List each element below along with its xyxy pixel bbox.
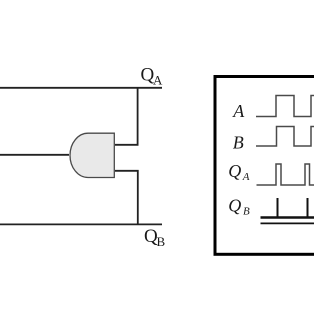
svg-text:B: B	[157, 234, 166, 249]
svg-text:A: A	[242, 171, 250, 183]
svg-text:Q: Q	[228, 161, 241, 181]
svg-text:B: B	[243, 206, 250, 218]
svg-text:B: B	[233, 133, 244, 153]
svg-text:Q: Q	[228, 196, 241, 216]
svg-text:A: A	[153, 73, 163, 88]
svg-text:A: A	[232, 101, 245, 121]
